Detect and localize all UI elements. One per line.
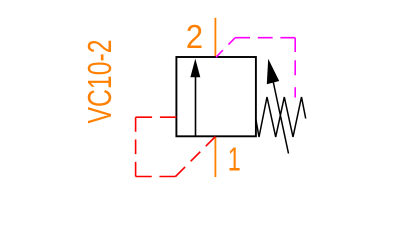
flow arrow shaft — [195, 76, 197, 136]
flow arrow head — [190, 59, 200, 78]
pilot line (magenta dashed) diagonal from port 2 — [216, 38, 235, 58]
drain line diagonal to port 1 — [176, 137, 216, 177]
adjustment arrow head — [267, 59, 279, 84]
adjustment arrow shaft — [272, 78, 288, 154]
svg-text:1: 1 — [228, 141, 241, 178]
drain line (red dashed) from box left — [136, 116, 177, 118]
drain line vertical — [135, 117, 137, 176]
spring — [256, 97, 306, 137]
port line 2 (orange) — [214, 18, 216, 57]
valve body box — [176, 57, 256, 136]
pilot line horizontal — [235, 37, 295, 39]
drain line bottom horizontal — [136, 176, 176, 178]
port line 1 (orange) — [214, 136, 216, 177]
pilot line vertical down to spring — [294, 38, 296, 98]
svg-text:2: 2 — [186, 19, 203, 56]
svg-text:VC10-2: VC10-2 — [82, 40, 119, 124]
